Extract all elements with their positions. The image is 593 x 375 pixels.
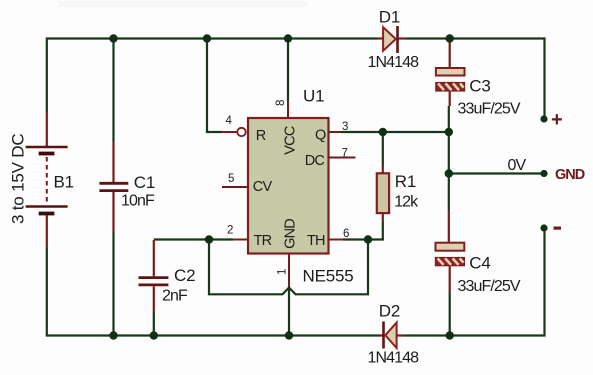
value 33uF/25V xyxy=(458,101,521,118)
pin label CV xyxy=(253,179,273,195)
pin 2 stub TR xyxy=(233,239,248,241)
capacitor C1 xyxy=(99,142,128,232)
pin number 7 xyxy=(342,148,348,160)
pin 8 stub xyxy=(287,101,289,118)
wire bottom rail left of D2 xyxy=(47,248,380,336)
wire C1 branch xyxy=(112,39,114,336)
value 12k xyxy=(394,194,419,211)
pin label TH xyxy=(307,233,325,249)
terminal GND xyxy=(540,167,584,183)
pin label DC xyxy=(305,153,325,169)
svg-text:C3: C3 xyxy=(469,77,490,96)
svg-text:0V: 0V xyxy=(508,157,527,174)
svg-text:1N4148: 1N4148 xyxy=(368,350,420,367)
junction top rail VCC xyxy=(284,34,292,42)
wire node Q to 0V node xyxy=(448,132,450,174)
junction top rail reset xyxy=(203,34,211,42)
svg-text:2: 2 xyxy=(227,225,233,237)
wire TH pin 6 xyxy=(343,238,384,240)
svg-text:D2: D2 xyxy=(379,302,400,321)
junction node Q R1 xyxy=(379,128,387,136)
value 10nF xyxy=(121,193,155,210)
pin 4 reset bubble and stub xyxy=(222,128,246,136)
terminal + xyxy=(540,109,562,131)
diode D1 xyxy=(377,26,406,53)
electrolytic capacitor C3 xyxy=(436,40,465,106)
svg-text:2nF: 2nF xyxy=(162,288,188,305)
svg-text:33uF/25V: 33uF/25V xyxy=(458,278,521,295)
junction node 0V xyxy=(445,169,453,177)
svg-text:C1: C1 xyxy=(134,173,155,192)
pin label VCC xyxy=(282,126,298,155)
value 2nF xyxy=(162,288,188,305)
wire GND pin 1 down xyxy=(288,287,290,336)
junction top rail C1 xyxy=(109,34,117,42)
wire C4 bottom lead xyxy=(449,292,451,336)
junction bottom rail C4 xyxy=(446,331,454,339)
svg-text:DC: DC xyxy=(305,153,325,169)
svg-text:3: 3 xyxy=(342,121,348,133)
capacitor C2 xyxy=(139,240,169,336)
label U1 xyxy=(303,87,324,106)
label D2 xyxy=(379,302,400,321)
pin number 5 xyxy=(228,173,234,185)
pin 5 stub CV xyxy=(222,186,248,188)
svg-text:1: 1 xyxy=(277,269,289,275)
svg-text:U1: U1 xyxy=(303,87,324,106)
pin number 3 xyxy=(342,121,348,133)
pin 7 stub DC xyxy=(329,157,356,159)
label D1 xyxy=(379,8,400,27)
pin number 8 xyxy=(275,100,287,106)
label 3 to 15V DC xyxy=(9,134,28,224)
pin number 4 xyxy=(226,115,233,127)
pin number 2 xyxy=(227,225,233,237)
svg-text:7: 7 xyxy=(342,148,348,160)
faint watermark remnant xyxy=(58,1,308,7)
label R1 xyxy=(395,172,416,191)
junction node Q C3 xyxy=(445,128,453,136)
junction node TH xyxy=(364,235,372,243)
label C4 xyxy=(469,254,490,273)
label C2 xyxy=(174,266,195,285)
svg-text:8: 8 xyxy=(275,100,287,106)
svg-text:1N4148: 1N4148 xyxy=(368,54,420,71)
junction bottom rail C1 xyxy=(109,331,117,339)
svg-text:C4: C4 xyxy=(469,254,490,273)
wire TH to TR link with hop over pin1 wire xyxy=(209,240,368,295)
node 0V label xyxy=(508,157,527,174)
svg-text:R: R xyxy=(256,128,266,144)
value 33uF/25V bottom xyxy=(458,278,521,295)
svg-text:D1: D1 xyxy=(379,8,400,27)
pin label R xyxy=(256,128,266,144)
value 1N4148 top xyxy=(368,54,420,71)
label C1 xyxy=(134,173,155,192)
svg-text:Q: Q xyxy=(315,128,326,144)
svg-text:TR: TR xyxy=(254,233,272,249)
diode D2 xyxy=(380,322,405,349)
wire TR pin 2 to C2 xyxy=(154,238,233,240)
svg-text:VCC: VCC xyxy=(282,126,298,155)
wire top rail left of D1 xyxy=(47,39,377,113)
svg-text:+: + xyxy=(551,109,563,131)
resistor R1 xyxy=(377,165,389,222)
svg-text:R1: R1 xyxy=(395,172,416,191)
svg-text:3 to 15V DC: 3 to 15V DC xyxy=(9,134,28,224)
pin label GND xyxy=(282,219,298,249)
wire R1 bottom lead xyxy=(382,222,384,240)
wire C3 bottom to Q node xyxy=(448,106,450,132)
svg-text:TH: TH xyxy=(307,233,325,249)
svg-text:12k: 12k xyxy=(394,194,419,211)
pin 6 stub TH xyxy=(329,239,344,241)
electrolytic capacitor C4 xyxy=(436,210,465,292)
label B1 xyxy=(54,173,74,192)
svg-text:5: 5 xyxy=(228,173,234,185)
wire top rail right of D1 xyxy=(406,39,545,120)
label C3 xyxy=(469,77,490,96)
label NE555 xyxy=(303,267,354,286)
svg-text:6: 6 xyxy=(343,228,349,240)
pin label TR xyxy=(254,233,272,249)
wire R1 top lead xyxy=(382,132,384,165)
pin label Q xyxy=(315,128,326,144)
wire 0V to GND terminal xyxy=(449,172,544,174)
svg-text:GND: GND xyxy=(555,167,585,183)
value 1N4148 bottom xyxy=(368,350,420,367)
junction bottom rail C2 xyxy=(150,331,158,339)
svg-text:10nF: 10nF xyxy=(121,193,155,210)
junction bottom rail GND pin1 xyxy=(285,331,293,339)
pin 1 stub GND xyxy=(288,254,290,287)
svg-text:GND: GND xyxy=(282,219,298,249)
svg-text:NE555: NE555 xyxy=(303,267,354,286)
pin number 1 xyxy=(277,269,289,275)
svg-text:33uF/25V: 33uF/25V xyxy=(458,101,521,118)
pin 3 stub xyxy=(329,131,342,133)
op IC U1 NE555 body xyxy=(248,118,329,254)
junction top rail C3 xyxy=(446,34,454,42)
wire VCC branch to pin 8 xyxy=(287,39,289,102)
junction node TR xyxy=(205,235,213,243)
wire 0V node to C4 xyxy=(448,174,450,211)
wire Q output pin 3 xyxy=(341,131,449,133)
wire reset branch to pin 4 xyxy=(207,39,222,133)
svg-text:C2: C2 xyxy=(174,266,195,285)
terminal - xyxy=(540,224,561,231)
wire bottom rail right of D2 xyxy=(404,228,545,336)
svg-text:CV: CV xyxy=(253,179,273,195)
svg-text:B1: B1 xyxy=(54,173,74,192)
battery B1 xyxy=(26,112,68,248)
pin number 6 xyxy=(343,228,349,240)
